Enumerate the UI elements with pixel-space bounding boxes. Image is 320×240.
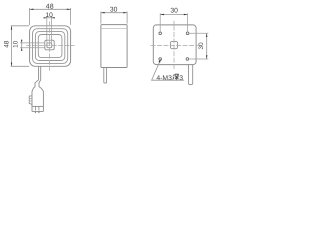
front view vertical centerline — [48, 22, 50, 71]
svg-text:10: 10 — [46, 12, 54, 19]
front view outer body square — [30, 26, 71, 67]
back view horizontal centerline — [151, 45, 201, 47]
dim 30 side dimension line — [101, 12, 127, 14]
back view center pole square — [170, 41, 177, 48]
back view hole top-right — [186, 32, 189, 35]
dim 30 back right dimension line — [206, 33, 208, 59]
side view body rectangle — [101, 25, 127, 68]
dim 30 back top extension line right — [187, 13, 189, 31]
connector cap line — [32, 105, 43, 107]
leader note glyph shen (depth) — [173, 74, 179, 80]
leader line to mounting hole — [152, 60, 184, 80]
back view wire tube — [189, 65, 193, 85]
back view hole top-left — [159, 32, 162, 35]
connector latch tab — [29, 96, 32, 105]
dim 30 back right extension line top — [190, 32, 209, 34]
dim 48 top left arrow — [30, 9, 34, 10]
dim 48 left dimension line — [11, 26, 13, 67]
svg-text:48: 48 — [46, 4, 54, 11]
dim 10 left extension line bottom — [20, 47, 45, 49]
connector pin slot left — [35, 106, 37, 110]
back view hole bottom-left — [159, 58, 162, 61]
connector latch tooth 2 — [29, 100, 32, 102]
side view wire tube — [104, 68, 107, 84]
dim 10 top left arrow — [44, 17, 47, 18]
dim 48 top extension line right — [70, 8, 72, 25]
svg-text:30: 30 — [170, 8, 178, 15]
front view horizontal centerline — [26, 45, 74, 47]
dim 48 left extension line top — [11, 25, 29, 27]
dim 48 left bottom arrow — [11, 63, 12, 67]
svg-text:10: 10 — [13, 40, 20, 48]
back view plate square — [153, 25, 196, 65]
dim 48 top right arrow — [67, 9, 71, 10]
dim 10 top extension line left — [46, 16, 48, 43]
dim 48 top extension line left — [29, 8, 31, 25]
svg-text:48: 48 — [4, 40, 11, 48]
dim 30 back top left arrow — [160, 14, 164, 15]
dim 30 back right extension line bottom — [189, 58, 208, 60]
dim 48 left extension line bottom — [11, 65, 29, 67]
dim 10 left bottom arrow — [21, 48, 22, 51]
dim 30 back right bottom arrow — [206, 55, 207, 59]
front view center hole square — [47, 43, 52, 48]
leader arrowhead — [159, 59, 161, 63]
dim 10 left dimension line — [21, 40, 23, 51]
dim 10 left top arrow — [21, 40, 22, 43]
connector pin stub right — [38, 111, 40, 113]
front view coil ring 4 — [38, 35, 62, 58]
lead wire right line — [39, 66, 43, 111]
svg-text:4-M3: 4-M3 — [156, 75, 172, 82]
front view coil ring 2 — [33, 29, 68, 64]
dim 30 back top dimension line — [160, 14, 187, 16]
lead wire left line — [32, 66, 39, 111]
dim 30 back top right arrow — [184, 14, 188, 15]
connector latch tooth 1 — [29, 97, 32, 99]
connector bottom edge — [32, 110, 43, 112]
dim 48 top dimension line — [30, 8, 71, 10]
dim 30 back right top arrow — [206, 33, 207, 37]
dim 30 side extension line left — [100, 12, 102, 24]
side view cap seam line — [101, 28, 127, 30]
svg-text:30: 30 — [110, 7, 118, 14]
dim 10 top right arrow — [52, 17, 55, 18]
dim 30 back top extension line left — [159, 13, 161, 31]
connector pin slot right — [38, 106, 40, 110]
svg-text:3: 3 — [179, 75, 183, 82]
back view vertical centerline — [173, 21, 175, 70]
connector pin stub left — [35, 111, 37, 113]
dim 48 left top arrow — [11, 26, 12, 30]
dim 10 left extension line top — [20, 42, 45, 44]
front view center pole square — [45, 40, 54, 50]
svg-text:30: 30 — [198, 42, 205, 50]
dim 30 side left arrow — [101, 12, 105, 13]
front view coil ring 3 — [35, 32, 64, 61]
dim 10 top dimension line — [43, 17, 55, 19]
dim 10 top extension line right — [51, 16, 53, 43]
dim 30 side right arrow — [123, 12, 127, 13]
back view hole bottom-right — [186, 58, 189, 61]
dim 30 side extension line right — [126, 12, 128, 24]
